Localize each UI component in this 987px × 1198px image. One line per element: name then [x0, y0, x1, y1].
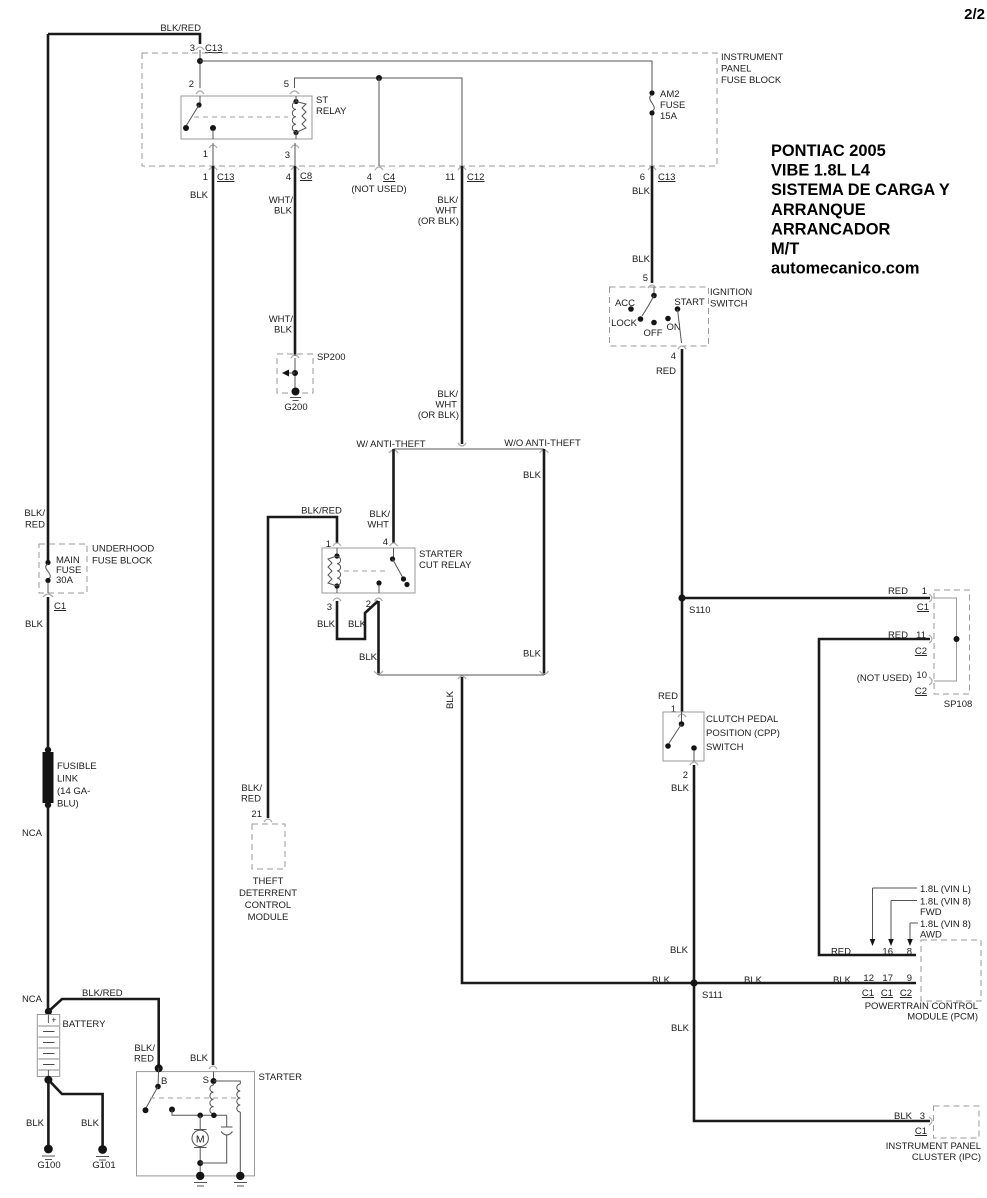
wire: pin5 bus to C4 / C12	[295, 78, 463, 166]
wire: BLK/RED from theft module to relay pin 1	[268, 517, 337, 818]
svg-text:BLK: BLK	[26, 1118, 45, 1129]
svg-text:G101: G101	[92, 1160, 115, 1171]
svg-text:C13: C13	[217, 172, 234, 183]
svg-text:1: 1	[922, 586, 927, 597]
connector ST relay pin 1 stub	[209, 145, 217, 148]
svg-text:AM2: AM2	[660, 89, 680, 100]
wire: branch down to C4 (not used)	[378, 78, 380, 166]
connector C4 pin 4 (not used)	[375, 167, 383, 170]
svg-text:(NOT USED): (NOT USED)	[857, 673, 912, 684]
fuse MAIN FUSE 30A	[45, 560, 50, 565]
wire: bus to AM2 fuse	[200, 61, 652, 92]
node S111	[690, 979, 697, 986]
wire: START contact to pin 4	[678, 309, 682, 343]
connector CPP pin 2	[690, 762, 698, 765]
svg-text:RED: RED	[658, 691, 678, 702]
svg-text:BLK: BLK	[671, 1023, 690, 1034]
svg-text:1: 1	[203, 172, 208, 183]
node: battery negative post	[44, 1076, 52, 1084]
svg-text:1.8L (VIN 8): 1.8L (VIN 8)	[920, 919, 971, 930]
wire: main fuse to C1	[47, 582, 49, 593]
svg-text:SISTEMA DE CARGA Y: SISTEMA DE CARGA Y	[771, 181, 950, 199]
svg-text:ST: ST	[316, 95, 328, 106]
relay K1: STARTER CUT RELAY	[333, 543, 341, 546]
svg-text:C2: C2	[900, 988, 912, 999]
splice pack SP108 (dashed)	[934, 590, 970, 694]
svg-text:S: S	[203, 1075, 209, 1086]
motor M	[199, 1115, 201, 1130]
svg-text:8: 8	[907, 947, 912, 958]
svg-text:RED: RED	[888, 586, 908, 597]
svg-text:C2: C2	[915, 686, 927, 697]
svg-text:BLK: BLK	[445, 690, 456, 709]
svg-text:BLK: BLK	[190, 190, 209, 201]
svg-text:SP108: SP108	[944, 699, 973, 710]
wire: BLK/WHT (OR BLK) from C12 pin11 down to split	[461, 166, 464, 444]
svg-text:C1: C1	[862, 988, 874, 999]
wire: RED PCM to SP108 pin 11	[819, 639, 930, 955]
svg-text:C2: C2	[915, 646, 927, 657]
wire: BLK from C1 down to fusible link	[47, 597, 50, 750]
wire: WHT/BLK from C8 pin4 down to SP200	[294, 166, 297, 356]
svg-text:WHT: WHT	[435, 206, 457, 217]
ignition switch arm	[653, 287, 655, 294]
connector ST relay pin 2	[196, 91, 204, 94]
svg-text:INSTRUMENT PANEL: INSTRUMENT PANEL	[886, 1141, 981, 1152]
svg-text:G200: G200	[284, 402, 307, 413]
wire: BLK from CPP pin2 down through S111 to IPC	[694, 765, 930, 1121]
connector relay pin 2	[375, 598, 383, 601]
svg-text:C4: C4	[383, 172, 395, 183]
svg-text:INSTRUMENT: INSTRUMENT	[721, 52, 783, 63]
svg-text:11: 11	[916, 630, 926, 641]
wire: merged BLK down to S111 bus	[462, 677, 916, 983]
svg-text:RED: RED	[831, 947, 851, 958]
CPP switch contacts	[681, 712, 683, 723]
svg-text:W/ ANTI-THEFT: W/ ANTI-THEFT	[356, 439, 425, 450]
instrument panel fuse block (dashed)	[142, 53, 717, 166]
svg-text:BLK/: BLK/	[134, 1043, 155, 1054]
svg-text:W/O ANTI-THEFT: W/O ANTI-THEFT	[504, 438, 581, 449]
starter internal dashed link	[150, 1097, 236, 1099]
svg-text:RED: RED	[134, 1054, 154, 1065]
svg-text:STARTER: STARTER	[259, 1072, 303, 1083]
wire: BLK battery negative to G101	[48, 1080, 102, 1148]
svg-text:BLK/RED: BLK/RED	[82, 988, 123, 999]
svg-text:SWITCH: SWITCH	[706, 742, 744, 753]
svg-text:1: 1	[671, 704, 676, 715]
wire: NCA fusible link to battery	[47, 805, 50, 1010]
svg-text:PONTIAC 2005: PONTIAC 2005	[771, 142, 886, 160]
svg-text:1.8L (VIN 8): 1.8L (VIN 8)	[920, 897, 971, 908]
svg-text:START: START	[674, 297, 704, 308]
svg-text:S111: S111	[702, 990, 723, 1001]
INSTRUMENT PANEL CLUSTER (dashed)	[934, 1106, 980, 1138]
svg-text:ARRANQUE: ARRANQUE	[771, 201, 866, 219]
svg-text:2: 2	[189, 79, 194, 90]
svg-text:FUSE BLOCK: FUSE BLOCK	[92, 556, 153, 567]
wire: BLK/WHT branch w/ anti-theft to relay pin 4	[392, 449, 395, 543]
svg-text:C8: C8	[300, 171, 312, 182]
ST relay internal dashed link	[194, 116, 288, 118]
POWERTRAIN CONTROL MODULE (dashed)	[921, 940, 981, 1001]
svg-text:BLK: BLK	[274, 325, 293, 336]
svg-text:FUSIBLE: FUSIBLE	[57, 761, 97, 772]
svg-text:DETERRENT: DETERRENT	[239, 888, 297, 899]
fusible link (14 GA-BLU)	[45, 747, 51, 753]
svg-text:FWD: FWD	[920, 907, 942, 918]
svg-text:C13: C13	[658, 172, 675, 183]
svg-text:(14 GA-: (14 GA-	[57, 786, 90, 797]
svg-text:BLK: BLK	[25, 619, 44, 630]
svg-text:ARRANCADOR: ARRANCADOR	[771, 220, 890, 238]
svg-text:C1: C1	[915, 1126, 927, 1137]
svg-text:UNDERHOOD: UNDERHOOD	[92, 544, 154, 555]
UNDERHOOD FUSE BLOCK (dashed)	[39, 544, 87, 593]
wire: left main BLK/RED down to main fuse	[47, 34, 50, 562]
svg-text:CLUTCH PEDAL: CLUTCH PEDAL	[706, 714, 778, 725]
ignition positions	[628, 306, 634, 312]
svg-text:2/2: 2/2	[964, 6, 985, 23]
svg-text:BLK: BLK	[632, 254, 651, 265]
svg-text:AWD: AWD	[920, 930, 942, 941]
svg-text:11: 11	[445, 172, 455, 183]
svg-text:5: 5	[284, 79, 289, 90]
wire: BLK from C13 pin1 down to starter S terminal	[212, 166, 215, 1065]
svg-text:BLK: BLK	[523, 649, 542, 660]
svg-text:VIBE 1.8L L4: VIBE 1.8L L4	[771, 162, 871, 180]
starter cut relay switch	[390, 556, 395, 561]
svg-text:15A: 15A	[660, 111, 678, 122]
connector C13 pin 1 at block edge	[209, 167, 217, 170]
svg-text:M: M	[196, 1134, 205, 1146]
svg-text:POSITION (CPP): POSITION (CPP)	[706, 728, 780, 739]
IGNITION SWITCH (dashed)	[610, 287, 709, 346]
svg-text:30A: 30A	[56, 575, 74, 586]
svg-text:BLK/: BLK/	[437, 389, 458, 400]
svg-text:17: 17	[882, 973, 893, 984]
svg-text:IGNITION: IGNITION	[710, 287, 752, 298]
svg-text:3: 3	[285, 150, 290, 161]
svg-text:SP200: SP200	[317, 352, 346, 363]
svg-text:C1: C1	[917, 602, 929, 613]
ST relay coil with parallel resistor	[293, 99, 298, 104]
svg-text:3: 3	[327, 602, 332, 613]
svg-text:POWERTRAIN CONTROL: POWERTRAIN CONTROL	[865, 1001, 978, 1012]
connector C13 pin 3	[196, 47, 204, 50]
svg-text:BLK: BLK	[833, 975, 852, 986]
svg-text:FUSE BLOCK: FUSE BLOCK	[721, 75, 782, 86]
svg-text:CONTROL: CONTROL	[245, 900, 291, 911]
connector ST relay pin 3 stub	[291, 145, 299, 148]
svg-text:BLK: BLK	[632, 186, 651, 197]
connector ST relay pin 5	[290, 91, 299, 94]
node: motor junction	[197, 1113, 203, 1119]
svg-text:C12: C12	[467, 172, 484, 183]
svg-text:BATTERY: BATTERY	[63, 1019, 107, 1030]
svg-text:1: 1	[203, 149, 208, 160]
connector ignition pin 5	[648, 285, 656, 288]
svg-text:BLK: BLK	[671, 783, 690, 794]
svg-text:3: 3	[190, 43, 195, 54]
svg-text:12: 12	[863, 973, 874, 984]
wire: AM2 fuse to C13 pin 6	[651, 115, 653, 166]
svg-text:4: 4	[367, 172, 372, 183]
ground G101	[98, 1145, 107, 1154]
node S110	[678, 594, 685, 601]
svg-text:4: 4	[671, 351, 676, 362]
SP200 branch arrow	[292, 370, 298, 376]
relay U1: ST RELAY box	[181, 96, 312, 139]
ground G100	[44, 1145, 53, 1154]
node: junction on pin3 feed	[197, 58, 203, 64]
svg-text:BLK: BLK	[348, 619, 367, 630]
svg-text:BLK/: BLK/	[369, 509, 390, 520]
node: branch to C4	[376, 75, 382, 81]
svg-text:SWITCH: SWITCH	[710, 299, 748, 310]
svg-text:OFF: OFF	[644, 328, 663, 339]
svg-text:2: 2	[683, 770, 688, 781]
starter hold-in winding	[214, 1081, 241, 1084]
svg-text:BLK/RED: BLK/RED	[160, 23, 201, 34]
wire: BLK/RED battery to starter B terminal	[48, 999, 158, 1066]
svg-text:RED: RED	[25, 520, 45, 531]
svg-text:RELAY: RELAY	[316, 106, 347, 117]
svg-text:BLK/: BLK/	[24, 508, 45, 519]
svg-text:BLK: BLK	[190, 1053, 209, 1064]
svg-text:4: 4	[286, 172, 291, 183]
svg-text:PANEL: PANEL	[721, 64, 751, 75]
node: battery positive post	[45, 1008, 52, 1015]
svg-text:+: +	[52, 1016, 57, 1025]
svg-text:MODULE (PCM): MODULE (PCM)	[907, 1012, 978, 1023]
starter cut relay internal dashed link	[344, 570, 388, 572]
svg-text:STARTER: STARTER	[419, 549, 463, 560]
starter solenoid switch	[157, 1068, 160, 1086]
svg-text:BLK: BLK	[317, 619, 336, 630]
svg-text:16: 16	[882, 947, 893, 958]
wire: relay pin 2 down to merge	[377, 601, 380, 675]
node: anti-theft option split	[458, 443, 466, 446]
svg-text:6: 6	[640, 172, 645, 183]
svg-text:CLUSTER (IPC): CLUSTER (IPC)	[912, 1152, 981, 1163]
connector C12 pin 11 at block edge	[458, 167, 466, 170]
svg-text:BLK: BLK	[523, 470, 542, 481]
svg-text:ACC: ACC	[615, 298, 635, 309]
svg-text:G100: G100	[37, 1160, 60, 1171]
ground: starter case	[236, 1172, 244, 1180]
svg-text:C1: C1	[54, 601, 66, 612]
svg-text:(OR BLK): (OR BLK)	[418, 410, 459, 421]
svg-text:WHT/: WHT/	[269, 314, 294, 325]
svg-text:BLK/RED: BLK/RED	[301, 506, 342, 517]
starter cut relay coil with parallel resistor	[337, 548, 394, 593]
svg-text:BLK: BLK	[670, 945, 689, 956]
ground: starter motor	[196, 1172, 204, 1180]
svg-text:C1: C1	[881, 988, 893, 999]
svg-text:LINK: LINK	[57, 774, 79, 785]
fuse AM2 15A	[649, 90, 654, 95]
svg-text:B: B	[161, 1076, 167, 1087]
node: starter B terminal	[155, 1064, 163, 1072]
svg-text:BLK: BLK	[274, 206, 293, 217]
capacitor	[226, 1115, 228, 1127]
wire: BLK from C13 pin6 to ignition switch pin 5	[651, 166, 654, 283]
svg-text:BLK: BLK	[652, 975, 671, 986]
svg-text:BLK/: BLK/	[241, 783, 262, 794]
svg-text:BLK/: BLK/	[437, 195, 458, 206]
svg-text:THEFT: THEFT	[253, 876, 284, 887]
node: anti-theft option merge	[379, 674, 545, 676]
THEFT DETERRENT CONTROL MODULE (dashed)	[252, 824, 285, 869]
svg-text:RED: RED	[656, 366, 676, 377]
ST relay switch contacts	[199, 96, 201, 104]
svg-text:NCA: NCA	[22, 828, 43, 839]
svg-text:10: 10	[916, 670, 927, 681]
ground G200	[292, 388, 300, 396]
svg-text:5: 5	[643, 273, 648, 284]
svg-text:WHT: WHT	[435, 400, 457, 411]
svg-text:21: 21	[251, 809, 262, 820]
svg-text:MODULE: MODULE	[248, 912, 289, 923]
svg-text:FUSE: FUSE	[660, 100, 685, 111]
svg-text:S110: S110	[689, 605, 710, 616]
svg-text:3: 3	[920, 1111, 925, 1122]
splice SP200 (dashed)	[277, 354, 313, 393]
svg-text:LOCK: LOCK	[611, 318, 638, 329]
svg-text:WHT: WHT	[367, 520, 389, 531]
svg-text:(NOT USED): (NOT USED)	[351, 184, 406, 195]
CLUTCH PEDAL POSITION (CPP) SWITCH	[663, 712, 704, 761]
svg-text:1.8L (VIN L): 1.8L (VIN L)	[920, 884, 971, 895]
svg-text:4: 4	[383, 537, 388, 548]
svg-text:RED: RED	[888, 630, 908, 641]
svg-text:(OR BLK): (OR BLK)	[418, 216, 459, 227]
starter assembly box	[137, 1072, 255, 1176]
connector relay pin 3	[333, 598, 341, 601]
battery	[37, 1015, 59, 1077]
starter pull-in winding	[213, 1083, 215, 1085]
svg-text:CUT RELAY: CUT RELAY	[419, 560, 472, 571]
svg-text:9: 9	[907, 973, 912, 984]
svg-text:C13: C13	[205, 43, 222, 54]
wire: BLK branch w/o anti-theft down to merge	[543, 449, 546, 675]
wire: RED ignition pin4 down to CPP switch	[681, 349, 684, 712]
callout arrow 1.8L (VIN 8) AWD	[910, 923, 918, 939]
svg-text:M/T: M/T	[771, 240, 799, 258]
svg-text:BLK: BLK	[744, 975, 763, 986]
svg-text:NCA: NCA	[22, 994, 43, 1005]
svg-text:BLU): BLU)	[57, 799, 79, 810]
connector C1	[43, 594, 53, 597]
svg-text:BLK: BLK	[359, 652, 378, 663]
wire: RED S110 to SP108 pin 1	[682, 597, 930, 600]
svg-text:automecanico.com: automecanico.com	[771, 260, 919, 278]
wire: C13 pin3 into fuse block	[199, 50, 201, 88]
connector C8 pin 4 at block edge	[291, 167, 299, 170]
callout arrow 1.8L (VIN L)	[873, 888, 918, 939]
svg-text:WHT/: WHT/	[269, 195, 294, 206]
svg-text:RED: RED	[241, 794, 261, 805]
svg-text:BLK: BLK	[894, 1111, 913, 1122]
connector C13 pin 6 at block edge	[648, 167, 656, 170]
wire: BLK battery negative to G100	[47, 1080, 50, 1148]
wire: jumper relay pin3 to pin2	[337, 601, 378, 639]
svg-text:BLK: BLK	[81, 1118, 100, 1129]
wire: BLK/RED feed from left main wire to C13 pin 3	[48, 34, 200, 44]
callout arrow 1.8L (VIN 8) FWD	[891, 901, 917, 940]
